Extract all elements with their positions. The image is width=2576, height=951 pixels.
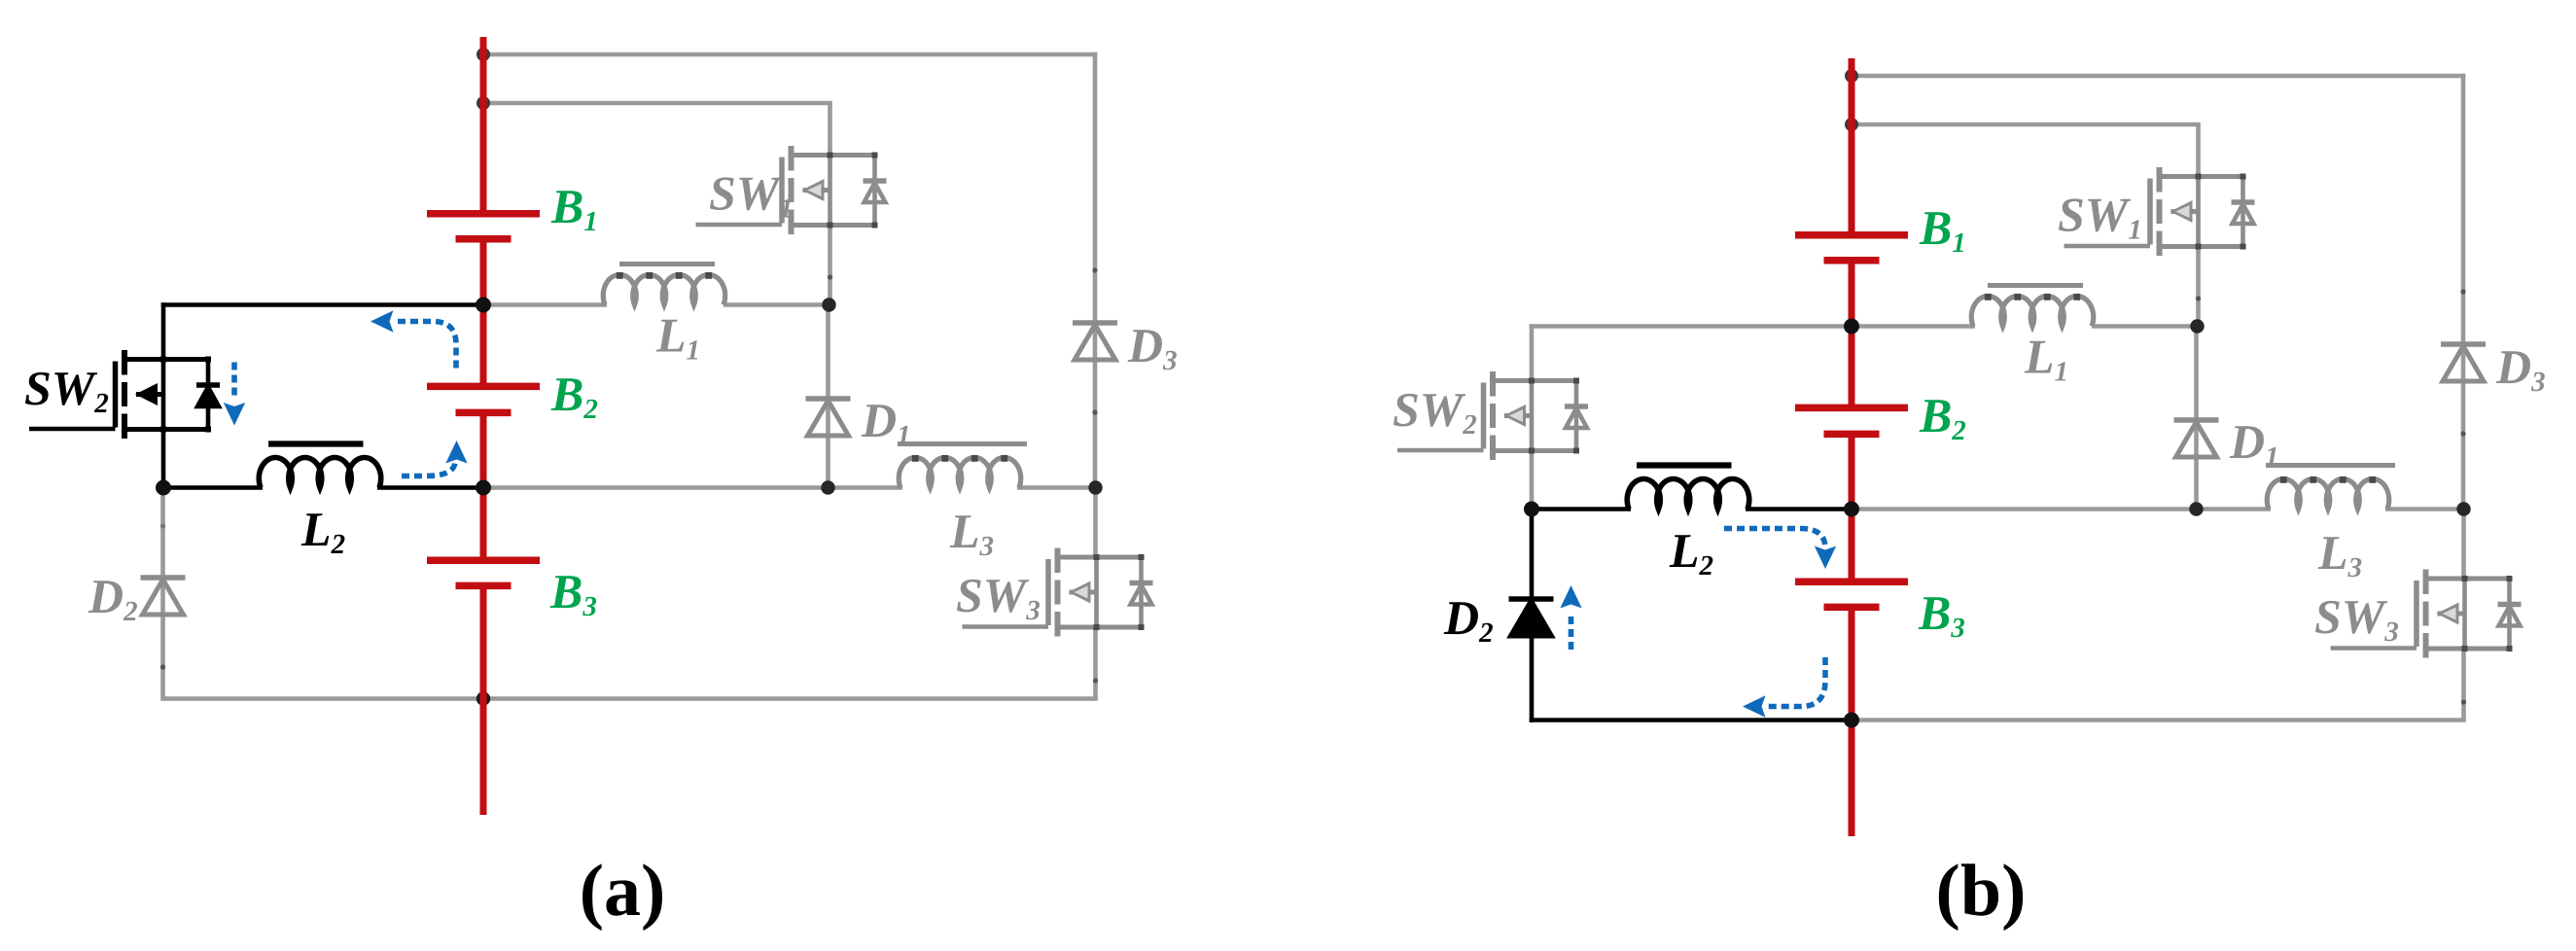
- inductor L2 core bar (b): [1637, 462, 1732, 468]
- current arrow out of B2 node (a) dashes: [402, 463, 455, 476]
- wire D3 branch vertical (a): [1093, 53, 1098, 488]
- svg-text:(a): (a): [580, 850, 666, 932]
- node L1-D1-SW1 junction (a): [822, 298, 835, 311]
- svg-text:SW: SW: [24, 361, 98, 415]
- node L3-right rail junction (b): [2456, 502, 2470, 515]
- current arrow through SW2 (a) head: [224, 403, 245, 426]
- wire from battery top node to SW1 drain (b): [1852, 123, 2201, 127]
- svg-text:B: B: [549, 564, 582, 618]
- current arrow into node B1 (a) head: [371, 310, 394, 332]
- node battery top junction 2 (a): [476, 96, 490, 110]
- wire top rail from battery top to D3 branch (b): [1852, 74, 2465, 79]
- vertex mark D2 line lower (a): [160, 664, 165, 669]
- inductor L3 coil: [2267, 478, 2388, 509]
- battery stack B supply rail: [480, 37, 487, 815]
- battery stack B supply rail: [1849, 58, 1855, 836]
- diode D2: [1509, 599, 1554, 636]
- current arrow L2 into B3 (b) head: [1815, 546, 1836, 570]
- wire bottom rail (a): [163, 696, 1098, 701]
- transistor SW1 (MOSFET): [2064, 167, 2255, 256]
- wire D1 branch vertical (a): [826, 305, 830, 488]
- diode D3: [2441, 344, 2486, 381]
- wire L3 to right rail (a): [1017, 485, 1096, 490]
- transistor SW2 (MOSFET): [1397, 371, 1588, 460]
- wire right rail to SW3 drain (b): [2461, 510, 2466, 581]
- transistor SW2 (MOSFET): [29, 350, 220, 439]
- node bottom rail B3 junction (b): [1844, 713, 1859, 728]
- svg-text:SW: SW: [709, 166, 783, 221]
- wire active: L2 node to L2 coil (b): [1532, 507, 1631, 511]
- svg-text:B: B: [1919, 200, 1952, 255]
- wire L3 to right rail (b): [2385, 507, 2464, 511]
- battery B2 plates: [427, 386, 540, 412]
- svg-text:L: L: [2024, 330, 2055, 384]
- wire SW1 source to L1 node (a): [828, 223, 832, 305]
- battery B3 plates: [1795, 581, 1908, 607]
- vertex mark SW1 source line (b): [2196, 296, 2201, 300]
- current arrow bottom return (b) dashes: [1768, 657, 1825, 707]
- svg-text:L: L: [1669, 523, 1700, 578]
- svg-text:D: D: [2495, 339, 2531, 394]
- diode D1: [806, 399, 851, 436]
- svg-text:B: B: [550, 367, 583, 421]
- node L1-D1-SW1 junction (b): [2190, 319, 2204, 333]
- node B2-B3 junction (a): [476, 480, 491, 496]
- battery B1 plates: [1795, 235, 1908, 261]
- svg-text:SW: SW: [2314, 589, 2388, 644]
- svg-text:L: L: [300, 502, 332, 556]
- svg-text:B: B: [1919, 388, 1952, 442]
- node B1-B2 junction (b): [1844, 319, 1859, 335]
- svg-text:L: L: [2317, 525, 2348, 580]
- wire SW1 source to L1 node (b): [2196, 244, 2201, 327]
- node battery top junction 2 (b): [1845, 118, 1858, 131]
- transistor SW3 (MOSFET): [2331, 570, 2522, 658]
- current arrow out of B2 node (a) head: [445, 440, 467, 464]
- wire SW3 source down (a): [1093, 625, 1098, 699]
- wire right rail to SW3 drain (a): [1093, 488, 1098, 560]
- node B1-B2 junction (a): [476, 298, 491, 313]
- svg-text:B: B: [550, 179, 583, 233]
- inductor L3 core bar: [898, 441, 1027, 446]
- inductor L2 coil: [1627, 478, 1748, 509]
- diode D2: [141, 578, 186, 615]
- node bottom rail crossing (a): [476, 691, 490, 705]
- vertex mark D3 line upper (b): [2460, 289, 2465, 294]
- wire SW2 source down to L2 node (b): [1530, 449, 1535, 510]
- wire node B1-B2 to L1 (b): [1852, 324, 1975, 329]
- wire active: D2 branch vertical (b): [1530, 510, 1535, 722]
- battery B1 plates: [427, 214, 540, 239]
- wire L1 to D1 top node (b): [2092, 324, 2197, 329]
- svg-text:(b): (b): [1936, 850, 2027, 932]
- wire active: node B1-B2 to SW2 drain corner (a): [161, 302, 483, 307]
- wire node B2-B3 to D1 bottom node (b): [1852, 507, 2197, 511]
- wire D3 branch vertical (b): [2461, 74, 2466, 510]
- wire SW3 source down (b): [2461, 647, 2466, 721]
- node SW2-L2 junction (a): [156, 480, 171, 496]
- wire bottom rail right of battery (b): [1852, 718, 2466, 722]
- inductor L1 coil: [603, 274, 725, 304]
- node L3-right rail junction (a): [1088, 480, 1102, 494]
- wire D1 node to L3 (a): [829, 485, 903, 490]
- node D2-SW2-L2 junction (b): [1524, 502, 1539, 517]
- svg-text:D: D: [861, 393, 897, 447]
- current arrow through SW2 (a) dashes: [231, 363, 237, 401]
- inductor L3 core bar (b): [2266, 463, 2395, 468]
- current arrow into node B1 (a) dashes: [398, 322, 456, 371]
- vertex mark D3 line lower (a): [1092, 409, 1097, 414]
- vertex mark D3 line lower (b): [2460, 431, 2465, 436]
- inductor L1 coil: [1971, 296, 2094, 326]
- node battery top junction 1 (b): [1845, 69, 1858, 83]
- battery B3 plates: [427, 560, 540, 585]
- wire SW1 drain riser (b): [2196, 124, 2201, 178]
- svg-text:D: D: [2229, 414, 2265, 469]
- svg-text:L: L: [949, 504, 980, 558]
- current arrow up through D2 (b) dashes: [1569, 613, 1574, 650]
- wire node B2-B3 to D1 bottom node (a): [483, 485, 829, 490]
- inductor L1 core bar (b): [1988, 283, 2083, 288]
- wire active: SW2 drain riser (a): [161, 302, 166, 361]
- transistor SW1 (MOSFET): [696, 146, 887, 234]
- wire active: L2 node to L2 coil (a): [163, 485, 263, 490]
- svg-text:D: D: [1443, 590, 1479, 645]
- wire active: SW2 source down to L2 node (a): [161, 428, 166, 488]
- vertex mark SW3 source line (a): [1093, 678, 1098, 683]
- wire active: L2 coil to battery node (b): [1746, 507, 1852, 511]
- svg-text:SW: SW: [2058, 188, 2132, 242]
- wire D2 branch vertical (a): [160, 488, 165, 701]
- vertex mark SW3 source line (b): [2461, 699, 2466, 704]
- svg-text:SW: SW: [1393, 382, 1466, 437]
- svg-text:B: B: [1918, 585, 1951, 640]
- inductor L2 coil: [259, 457, 380, 487]
- wire active: L2 coil to battery node (a): [377, 485, 483, 490]
- wire from battery top node to SW1 drain (a): [483, 101, 832, 106]
- wire L1 to D1 top node (a): [723, 302, 829, 307]
- inductor L3 coil: [899, 457, 1021, 487]
- node D1-L3 junction (b): [2189, 502, 2203, 515]
- svg-text:D: D: [1127, 318, 1163, 372]
- svg-text:SW: SW: [956, 568, 1030, 622]
- battery B2 plates: [1795, 407, 1908, 434]
- node battery top junction 1 (a): [476, 48, 490, 61]
- wire active: bottom return B3 to D2 (b): [1530, 718, 1852, 722]
- vertex mark D2 line upper (a): [160, 523, 165, 528]
- transistor SW3 (MOSFET): [963, 548, 1153, 637]
- svg-text:L: L: [655, 308, 687, 363]
- wire D1 node to L3 (b): [2197, 507, 2272, 511]
- inductor L1 core bar: [619, 262, 715, 266]
- wire node B1-B2 to SW2 drain corner (b) inactive gray: [1530, 324, 1852, 329]
- wire SW1 drain riser (a): [828, 103, 832, 157]
- current arrow up through D2 (b) head: [1560, 585, 1581, 609]
- wire top rail from battery top to D3 branch (a): [483, 53, 1097, 57]
- current arrow L2 into B3 (b) dashes: [1724, 529, 1825, 549]
- wire node B1-B2 to L1 (a): [483, 302, 607, 307]
- wire SW2 drain riser (b): [1530, 324, 1535, 382]
- vertex mark D3 line upper (a): [1092, 267, 1097, 272]
- vertex mark SW1 source line (a): [828, 274, 832, 279]
- diode D1: [2174, 420, 2219, 457]
- current arrow bottom return (b) head: [1743, 695, 1766, 717]
- wire D1 branch vertical (b): [2194, 327, 2199, 510]
- diode D3: [1073, 323, 1117, 360]
- inductor L2 core bar: [268, 440, 364, 446]
- svg-text:D: D: [88, 569, 124, 623]
- node D1-L3 junction (a): [821, 480, 834, 494]
- node B2-B3 junction (b): [1844, 502, 1859, 517]
